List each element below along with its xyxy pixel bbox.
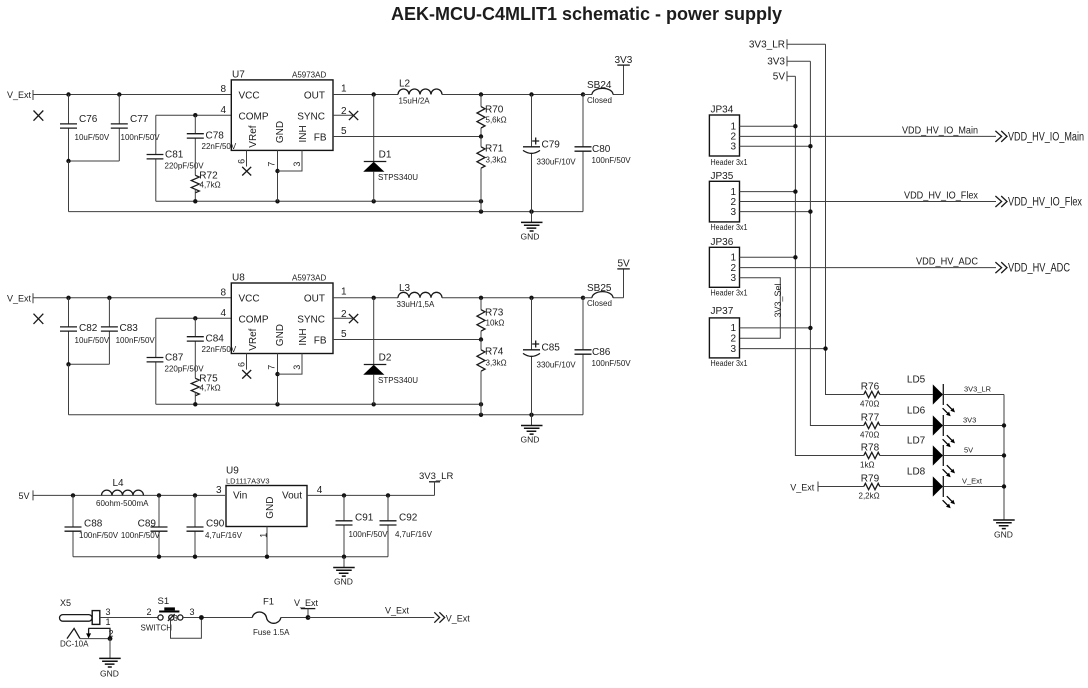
- svg-text:C90: C90: [206, 519, 225, 530]
- svg-text:OUT: OUT: [304, 293, 325, 304]
- svg-text:4,7kΩ: 4,7kΩ: [200, 384, 221, 393]
- svg-text:VDD_HV_IO_Main: VDD_HV_IO_Main: [1008, 131, 1084, 143]
- svg-text:VDD_HV_IO_Flex: VDD_HV_IO_Flex: [904, 189, 979, 201]
- svg-text:GND: GND: [521, 435, 540, 445]
- svg-text:10uF/50V: 10uF/50V: [75, 336, 110, 345]
- svg-text:100nF/50V: 100nF/50V: [121, 531, 161, 540]
- svg-text:10kΩ: 10kΩ: [486, 319, 505, 328]
- svg-text:1: 1: [341, 84, 347, 95]
- svg-text:C83: C83: [120, 323, 139, 334]
- svg-text:Header 3x1: Header 3x1: [711, 358, 748, 368]
- wire JP37.1 to 3V3 bus: [740, 327, 811, 329]
- resistor R79: [859, 473, 933, 500]
- wire V_Ext to U7 VCC: [33, 94, 231, 96]
- no-connect X below V_Ext: [34, 111, 44, 121]
- svg-text:3: 3: [292, 365, 302, 370]
- svg-text:C81: C81: [165, 150, 184, 161]
- op-amp U8 (A5973AD regulator): [231, 273, 333, 354]
- wire JP35.3 to 3V3 bus: [740, 211, 811, 213]
- svg-text:SB24: SB24: [587, 80, 612, 91]
- pin 1 (U9 gnd) stub: [259, 527, 269, 557]
- svg-text:3: 3: [190, 607, 195, 617]
- svg-text:5V: 5V: [773, 72, 786, 83]
- inductor L4: [96, 478, 149, 508]
- capacitor C87: [147, 318, 205, 404]
- wire JP34.3 to 3V3 bus: [740, 145, 811, 147]
- net flag 3V3_LR (top): [749, 39, 826, 50]
- svg-text:100nF/50V: 100nF/50V: [79, 531, 119, 540]
- pin 7 GND stub (block2): [266, 354, 279, 405]
- wire lower rail (block2): [69, 414, 584, 416]
- svg-text:JP37: JP37: [711, 306, 734, 317]
- svg-text:R76: R76: [861, 381, 880, 392]
- svg-text:S1: S1: [158, 596, 170, 607]
- svg-text:COMP: COMP: [239, 111, 269, 122]
- svg-text:JP34: JP34: [711, 105, 734, 116]
- svg-text:INH: INH: [298, 125, 309, 142]
- capacitor C76: [60, 95, 110, 162]
- wire C82/C83 bottom: [69, 363, 110, 365]
- svg-text:100nF/50V: 100nF/50V: [116, 336, 156, 345]
- svg-text:3V3: 3V3: [963, 416, 976, 425]
- node C76 top: [66, 92, 70, 96]
- net flag 3V3 (top): [767, 56, 810, 67]
- svg-text:V_Ext: V_Ext: [790, 482, 815, 492]
- svg-text:5: 5: [341, 329, 347, 340]
- svg-text:GND: GND: [275, 324, 286, 346]
- solder bridge SB25: [583, 283, 624, 308]
- wire 5V to U9 Vin: [33, 494, 225, 496]
- capacitor C78: [187, 115, 237, 175]
- svg-text:100nF/50V: 100nF/50V: [121, 133, 161, 142]
- node OUT / D1: [372, 92, 376, 96]
- svg-text:3: 3: [292, 162, 302, 167]
- svg-text:AEK-MCU-C4MLIT1 schematic - po: AEK-MCU-C4MLIT1 schematic - power supply: [391, 4, 782, 24]
- wire JP34.1 to 5V bus: [740, 125, 796, 127]
- wire JP36.3 to 3V3_Sel to JP37.2: [740, 278, 781, 339]
- svg-text:VCC: VCC: [239, 90, 260, 101]
- svg-text:C88: C88: [84, 519, 103, 530]
- wire L3 to output node: [442, 297, 583, 299]
- svg-text:1: 1: [106, 617, 111, 627]
- svg-text:C80: C80: [592, 144, 611, 155]
- svg-text:U8: U8: [232, 273, 245, 284]
- svg-text:4,7kΩ: 4,7kΩ: [200, 181, 221, 190]
- svg-text:1: 1: [341, 287, 347, 298]
- svg-text:4: 4: [220, 105, 226, 116]
- capacitor C77: [111, 95, 161, 162]
- svg-text:4: 4: [317, 485, 323, 496]
- svg-text:Closed: Closed: [587, 96, 612, 105]
- svg-text:SYNC: SYNC: [297, 111, 325, 122]
- no-connect X below V_Ext (block2): [34, 314, 44, 324]
- svg-text:C77: C77: [130, 114, 149, 125]
- svg-text:LD8: LD8: [907, 467, 926, 478]
- svg-text:60ohm-500mA: 60ohm-500mA: [96, 499, 149, 508]
- svg-text:D2: D2: [379, 352, 392, 363]
- svg-text:1: 1: [259, 533, 269, 538]
- net flag 5V (block3 input): [19, 490, 34, 501]
- pin 7 GND stub: [266, 150, 279, 201]
- capacitor C82: [60, 298, 110, 365]
- svg-text:Closed: Closed: [587, 299, 612, 308]
- svg-text:10uF/50V: 10uF/50V: [75, 133, 110, 142]
- svg-text:V_Ext: V_Ext: [7, 90, 32, 100]
- ground GND (LEDs): [993, 520, 1015, 539]
- resistor R77: [860, 412, 933, 439]
- svg-text:COMP: COMP: [239, 314, 269, 325]
- svg-text:C76: C76: [79, 114, 98, 125]
- pin 6 VRef stub + X: [236, 150, 251, 175]
- fuse F1: [252, 596, 290, 637]
- resistor R76: [860, 381, 933, 408]
- wire 3V3 bus: [810, 61, 863, 425]
- capacitor C86: [575, 298, 632, 415]
- wire U9 out to 3V3_LR: [307, 494, 435, 496]
- svg-text:FB: FB: [314, 335, 327, 346]
- diode D1 STPS340U: [363, 95, 418, 202]
- svg-text:V_Ext: V_Ext: [7, 293, 32, 303]
- regulator U9 LD1117A3V3: [226, 466, 307, 527]
- resistor R73: [477, 298, 504, 340]
- svg-text:R79: R79: [861, 473, 880, 484]
- capacitor C91: [336, 495, 389, 556]
- svg-text:220pF/50V: 220pF/50V: [165, 162, 205, 171]
- net flag V_Ext (block1 input): [7, 90, 33, 100]
- wire V_Ext to U8 VCC: [33, 297, 231, 299]
- svg-text:3: 3: [216, 485, 222, 496]
- wire upper rail (block2): [156, 403, 481, 405]
- wire COMP net: [156, 114, 231, 116]
- svg-text:5V: 5V: [964, 446, 973, 455]
- wire down to lower rail: [68, 161, 70, 212]
- svg-text:GND: GND: [521, 232, 540, 242]
- wire V_Ext out: [308, 617, 434, 619]
- svg-text:3: 3: [730, 142, 736, 153]
- svg-text:A5973AD: A5973AD: [292, 274, 326, 283]
- svg-text:3V3_Sel: 3V3_Sel: [773, 283, 783, 317]
- pin 6 VRef stub + X (block2): [236, 354, 251, 379]
- svg-text:100nF/50V: 100nF/50V: [592, 156, 632, 165]
- svg-text:GND: GND: [994, 529, 1013, 539]
- switch S1: [141, 596, 195, 633]
- svg-text:V_Ext: V_Ext: [962, 477, 983, 486]
- svg-text:GND: GND: [100, 669, 119, 679]
- connector JP34: [709, 105, 747, 167]
- svg-text:OUT: OUT: [304, 90, 325, 101]
- svg-text:6: 6: [236, 159, 246, 164]
- LED LD8: [907, 467, 1004, 509]
- resistor R74: [477, 340, 507, 415]
- capacitor C81 (on left branch): [147, 115, 205, 201]
- switch alternate path loop: [171, 618, 202, 639]
- connector JP36: [709, 237, 747, 298]
- net chevron VDD_HV_IO_Main: [995, 131, 1007, 142]
- svg-text:JP36: JP36: [711, 237, 734, 248]
- wire F1 to V_Ext flag: [281, 617, 308, 619]
- capacitor C90: [187, 495, 243, 556]
- svg-text:L2: L2: [399, 79, 411, 90]
- svg-text:R73: R73: [485, 308, 504, 319]
- svg-text:3,3kΩ: 3,3kΩ: [486, 358, 507, 367]
- connector JP35: [709, 171, 747, 232]
- node C77 top: [117, 92, 121, 96]
- svg-text:15uH/2A: 15uH/2A: [399, 96, 431, 105]
- svg-text:V_Ext: V_Ext: [294, 598, 319, 608]
- LED LD6: [907, 406, 1004, 448]
- svg-text:Fuse 1.5A: Fuse 1.5A: [253, 628, 290, 637]
- pin 3 INH stub: [278, 150, 303, 171]
- svg-text:VDD_HV_ADC: VDD_HV_ADC: [916, 256, 978, 268]
- svg-text:3V3: 3V3: [615, 55, 633, 66]
- net flag 5V (top): [773, 71, 796, 82]
- svg-text:220pF/50V: 220pF/50V: [165, 365, 205, 374]
- svg-text:2,2kΩ: 2,2kΩ: [859, 492, 880, 501]
- svg-text:LD6: LD6: [907, 406, 926, 417]
- svg-text:Vin: Vin: [233, 491, 247, 502]
- svg-text:V_Ext: V_Ext: [385, 606, 410, 616]
- svg-text:3: 3: [730, 273, 736, 284]
- ground GND (block3): [333, 557, 355, 587]
- capacitor C79 (polarized): [523, 95, 576, 212]
- svg-text:470Ω: 470Ω: [860, 431, 879, 440]
- svg-text:C84: C84: [206, 334, 225, 345]
- connector JP37: [709, 306, 747, 368]
- svg-text:GND: GND: [275, 121, 286, 143]
- svg-text:C92: C92: [399, 513, 418, 524]
- svg-text:33uH/1,5A: 33uH/1,5A: [397, 300, 435, 309]
- svg-text:R71: R71: [485, 144, 504, 155]
- svg-text:C87: C87: [165, 353, 184, 364]
- net chevron V_Ext: [434, 612, 444, 622]
- wire L2 to output node: [442, 94, 583, 96]
- svg-text:L3: L3: [399, 283, 411, 294]
- svg-text:Header 3x1: Header 3x1: [711, 222, 748, 232]
- svg-text:330uF/10V: 330uF/10V: [537, 360, 577, 369]
- svg-text:JP35: JP35: [711, 171, 734, 182]
- capacitor C83: [101, 298, 156, 365]
- svg-text:4,7uF/16V: 4,7uF/16V: [395, 530, 433, 539]
- svg-text:VDD_HV_IO_Main: VDD_HV_IO_Main: [902, 124, 978, 136]
- node C82 top: [66, 296, 70, 300]
- capacitor C92: [380, 495, 433, 556]
- resistor R78: [860, 442, 933, 469]
- LED LD5: [907, 375, 1004, 417]
- svg-text:FB: FB: [314, 132, 327, 143]
- svg-text:6: 6: [236, 362, 246, 367]
- svg-text:U9: U9: [226, 466, 239, 477]
- diode D2 STPS340U: [363, 298, 418, 405]
- ground GND (block1): [521, 212, 543, 242]
- svg-text:R77: R77: [861, 412, 880, 423]
- svg-text:3V3: 3V3: [767, 57, 785, 68]
- svg-text:Header 3x1: Header 3x1: [711, 287, 748, 297]
- svg-text:C86: C86: [592, 347, 611, 358]
- capacitor C85 (polarized): [523, 298, 576, 415]
- LED LD7: [907, 436, 1004, 478]
- svg-text:4: 4: [220, 308, 226, 319]
- svg-text:DC-10A: DC-10A: [60, 640, 89, 649]
- power flag 5V: [617, 259, 630, 298]
- svg-text:C89: C89: [138, 519, 157, 530]
- wire JP34.2 VDD_HV_IO_Main: [740, 135, 997, 137]
- svg-text:C91: C91: [355, 513, 374, 524]
- svg-text:3V3_LR: 3V3_LR: [749, 40, 785, 51]
- power flag V_Ext: [294, 598, 319, 620]
- svg-text:L4: L4: [113, 478, 125, 489]
- svg-text:3: 3: [173, 614, 178, 623]
- resistor R75: [191, 374, 220, 405]
- svg-text:3: 3: [730, 207, 736, 218]
- svg-text:X5: X5: [60, 598, 71, 608]
- wire 5V bus: [795, 76, 863, 455]
- ground GND (block2): [521, 415, 543, 445]
- svg-text:C78: C78: [206, 131, 225, 142]
- capacitor C88: [65, 495, 119, 556]
- svg-text:3V3_LR: 3V3_LR: [964, 385, 992, 394]
- svg-text:3V3_LR: 3V3_LR: [419, 471, 453, 482]
- net flag V_Ext (LED row): [790, 482, 864, 493]
- svg-text:5V: 5V: [19, 491, 30, 501]
- svg-text:C85: C85: [542, 342, 561, 353]
- svg-text:470Ω: 470Ω: [860, 400, 879, 409]
- resistor R70: [477, 95, 507, 137]
- op-amp U7 (A5973AD regulator): [231, 70, 333, 151]
- net chevron VDD_HV_IO_Flex: [995, 196, 1007, 207]
- svg-text:R78: R78: [861, 442, 880, 453]
- node C83 top: [107, 296, 111, 300]
- wire upper rail (GND net of U7 loop): [156, 200, 481, 202]
- svg-text:SYNC: SYNC: [297, 314, 325, 325]
- pin 3 INH stub (block2): [278, 354, 303, 375]
- svg-text:INH: INH: [298, 328, 309, 345]
- svg-text:LD5: LD5: [907, 375, 926, 386]
- capacitor C89: [121, 495, 168, 556]
- capacitor C84: [187, 318, 237, 378]
- svg-text:8: 8: [220, 287, 226, 298]
- svg-text:5: 5: [341, 126, 347, 137]
- svg-text:V_Ext: V_Ext: [446, 613, 471, 623]
- power flag 3V3: [615, 55, 633, 95]
- svg-text:LD1117A3V3: LD1117A3V3: [226, 477, 270, 486]
- svg-text:Vout: Vout: [282, 491, 302, 502]
- svg-text:2: 2: [730, 334, 736, 345]
- svg-text:8: 8: [220, 84, 226, 95]
- wire JP37.3 to 3V3_LR bus: [740, 348, 826, 350]
- svg-text:5,6kΩ: 5,6kΩ: [486, 115, 507, 124]
- svg-text:7: 7: [266, 365, 276, 370]
- jack internal switch contact: [67, 628, 80, 638]
- svg-text:A5973AD: A5973AD: [292, 71, 326, 80]
- svg-text:5V: 5V: [618, 259, 631, 270]
- svg-text:STPS340U: STPS340U: [378, 173, 418, 182]
- svg-text:GND: GND: [334, 577, 353, 587]
- resistor R71: [477, 137, 507, 212]
- net flag V_Ext (block2 input): [7, 293, 33, 303]
- wire JP36.2 VDD_HV_ADC: [740, 267, 997, 269]
- wire lower rail (GND): [69, 211, 584, 213]
- svg-text:STPS340U: STPS340U: [378, 376, 418, 385]
- resistor R72: [191, 171, 220, 202]
- svg-text:R70: R70: [485, 105, 504, 116]
- ground GND (X5): [99, 639, 121, 679]
- wire JP35.2 VDD_HV_IO_Flex: [740, 201, 997, 203]
- svg-text:VDD_HV_IO_Flex: VDD_HV_IO_Flex: [1008, 196, 1082, 208]
- svg-text:D1: D1: [379, 149, 392, 160]
- wire X5 to S1: [100, 617, 158, 619]
- wire bottom rail (block3): [73, 556, 388, 558]
- capacitor C80: [575, 95, 632, 212]
- power flag 3V3_LR: [419, 471, 453, 495]
- svg-text:330uF/10V: 330uF/10V: [537, 157, 577, 166]
- wire COMP net (block2): [156, 317, 231, 319]
- svg-text:2: 2: [147, 607, 152, 617]
- svg-text:3,3kΩ: 3,3kΩ: [486, 155, 507, 164]
- svg-text:100nF/50V: 100nF/50V: [349, 530, 389, 539]
- svg-text:VDD_HV_ADC: VDD_HV_ADC: [1008, 263, 1070, 275]
- connector X5 (DC barrel jack): [60, 598, 114, 649]
- svg-text:R74: R74: [485, 347, 504, 358]
- svg-text:F1: F1: [263, 596, 274, 607]
- svg-text:VRef: VRef: [248, 125, 259, 147]
- svg-text:VCC: VCC: [239, 293, 260, 304]
- node OUT / D2: [372, 296, 376, 300]
- svg-text:3: 3: [106, 607, 111, 617]
- svg-text:Header 3x1: Header 3x1: [711, 157, 748, 167]
- svg-text:GND: GND: [265, 497, 276, 519]
- wire JP36.1 to 5V bus: [740, 256, 796, 258]
- inductor L3: [397, 283, 443, 309]
- net chevron VDD_HV_ADC: [995, 262, 1007, 273]
- wire 3V3_LR bus: [826, 44, 864, 394]
- svg-text:U7: U7: [232, 70, 245, 81]
- solder bridge SB24: [583, 80, 624, 105]
- inductor L2: [398, 79, 442, 106]
- svg-text:1kΩ: 1kΩ: [860, 461, 874, 470]
- svg-text:100nF/50V: 100nF/50V: [592, 359, 632, 368]
- svg-text:4,7uF/16V: 4,7uF/16V: [205, 531, 243, 540]
- svg-text:C82: C82: [79, 323, 98, 334]
- svg-text:SWITCH: SWITCH: [141, 624, 173, 633]
- wire C76/C77 bottom: [69, 160, 120, 162]
- svg-text:SB25: SB25: [587, 283, 612, 294]
- wire LED cathode rail: [1003, 395, 1005, 520]
- wire JP35.1 to 5V bus: [740, 191, 796, 193]
- wire down to lower rail (block2): [68, 364, 70, 415]
- wire S1 to junction: [183, 617, 252, 619]
- svg-text:VRef: VRef: [248, 328, 259, 350]
- svg-text:C79: C79: [542, 139, 561, 150]
- svg-text:7: 7: [266, 162, 276, 167]
- svg-text:3: 3: [730, 344, 736, 355]
- svg-text:LD7: LD7: [907, 436, 926, 447]
